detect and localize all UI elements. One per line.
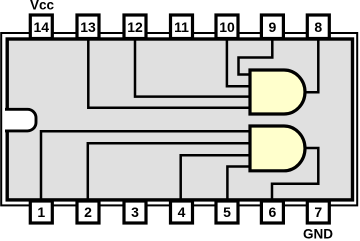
pin 7	[307, 201, 329, 223]
svg-text:5: 5	[223, 204, 231, 220]
svg-text:Vcc: Vcc	[30, 0, 55, 13]
package outline frame	[1, 33, 357, 205]
pin 11	[171, 15, 193, 39]
svg-text:9: 9	[269, 19, 277, 35]
pin 4	[171, 201, 193, 223]
pin 6	[261, 201, 283, 223]
svg-text:1: 1	[37, 204, 45, 220]
svg-text:10: 10	[219, 19, 235, 35]
svg-text:6: 6	[269, 204, 277, 220]
wire pin 4 to gate B input 3	[181, 155, 250, 202]
wire pin 9 to gate A input 1	[239, 38, 273, 75]
wire pin 2 to gate B input 2	[88, 143, 250, 202]
pin 8	[307, 15, 329, 39]
pin 2	[77, 201, 99, 223]
pin 12	[124, 15, 146, 39]
AND gate B (bottom, 4-input)	[250, 126, 305, 171]
wire pin 12 to gate A input 3	[135, 38, 250, 97]
svg-text:11: 11	[174, 19, 189, 35]
IC body U1 (DIP-14 package)	[7, 39, 352, 200]
wire pin 10 to gate A input 2	[227, 38, 250, 86]
wire gate B output to pin 6	[272, 148, 318, 202]
svg-text:14: 14	[34, 19, 50, 35]
wire pin 5 to gate B input 4	[227, 167, 250, 203]
pin 13	[77, 15, 99, 39]
svg-text:4: 4	[178, 204, 186, 220]
pin 5	[216, 201, 238, 223]
wire gate A output to pin 8	[305, 38, 318, 92]
AND gate A (top, 4-input)	[250, 70, 305, 114]
svg-text:8: 8	[314, 19, 322, 35]
svg-text:12: 12	[127, 19, 143, 35]
wire pin 13 to gate A input 4	[88, 38, 250, 108]
svg-text:7: 7	[314, 204, 322, 220]
svg-text:3: 3	[131, 204, 139, 220]
pin 3	[124, 201, 146, 223]
pin 1	[30, 201, 52, 223]
pin 9	[261, 15, 283, 39]
svg-text:13: 13	[80, 19, 96, 35]
svg-text:2: 2	[84, 204, 92, 220]
pin 14	[30, 15, 52, 39]
pin-1 notch	[5, 109, 36, 131]
svg-text:GND: GND	[303, 227, 333, 241]
pin 10	[216, 15, 238, 39]
wire pin 1 to gate B input 1	[41, 131, 250, 202]
